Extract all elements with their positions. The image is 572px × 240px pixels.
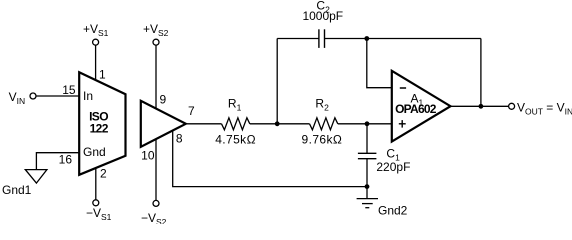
wire pin 10 (-VS2) xyxy=(155,134,157,200)
wire feedback down to output node xyxy=(480,39,482,107)
svg-text:16: 16 xyxy=(59,153,73,167)
svg-text:122: 122 xyxy=(90,121,109,135)
node D3 (top wire/-in junction) xyxy=(364,36,369,41)
svg-text:1: 1 xyxy=(99,68,106,82)
svg-text:1000pF: 1000pF xyxy=(302,9,343,23)
node D2 (R2/C1/+in junction) xyxy=(365,121,370,126)
wire R2 to op-amp + input xyxy=(338,123,393,125)
svg-text:In: In xyxy=(83,89,93,103)
wire C1 to Gnd2 xyxy=(366,159,368,199)
svg-text:OPA602: OPA602 xyxy=(395,102,437,116)
terminal -VS1 xyxy=(93,200,99,206)
svg-text:2: 2 xyxy=(100,167,107,181)
ISO122 U1 body xyxy=(79,72,125,175)
svg-text:4.75kΩ: 4.75kΩ xyxy=(215,133,256,147)
svg-text:Gnd1: Gnd1 xyxy=(2,183,32,197)
terminal +VS2 xyxy=(153,39,159,45)
wire pin 7 output to R1 xyxy=(183,123,222,125)
terminal -VS2 xyxy=(153,200,159,206)
wire node A down to op-amp - input xyxy=(367,39,393,88)
terminal VOUT xyxy=(509,103,515,109)
wire node B down to C1 xyxy=(366,124,368,153)
wire op-amp output to VOUT xyxy=(448,105,509,107)
capacitor C2 xyxy=(319,29,325,48)
svg-text:7: 7 xyxy=(188,104,195,118)
terminal VIN xyxy=(30,93,36,99)
capacitor C1 xyxy=(358,153,377,158)
resistor R1 xyxy=(222,118,250,130)
terminal +VS1 xyxy=(93,39,99,45)
wire pin 16 to Gnd1 xyxy=(36,153,80,170)
wire C2 branch up from R1/R2 node xyxy=(276,39,278,124)
svg-text:9.76kΩ: 9.76kΩ xyxy=(302,133,343,147)
wire top to C2 left plate xyxy=(277,38,319,40)
ground Gnd2 xyxy=(357,199,378,208)
buffer (ISO122 output stage) xyxy=(141,101,186,147)
svg-text:220pF: 220pF xyxy=(376,160,410,174)
wire C2 right plate to feedback corner xyxy=(325,38,481,40)
wire pin 8 down and right to Gnd2 node xyxy=(173,130,367,187)
wire pin 1 (+VS1) xyxy=(95,45,97,81)
wire pin 15 (VIN to ISO122) xyxy=(36,95,80,97)
svg-text:8: 8 xyxy=(176,132,183,146)
svg-text:15: 15 xyxy=(62,83,76,97)
wire R1 to R2 xyxy=(250,123,310,125)
node D4 (pin8/C1/Gnd2 junction) xyxy=(365,184,370,189)
node D1 (R1/R2/C2 junction) xyxy=(275,121,280,126)
wire pin 9 (+VS2) xyxy=(155,45,157,112)
node D5 (output/feedback junction) xyxy=(479,104,484,109)
ground Gnd1 xyxy=(25,170,47,184)
op-amp U2 OPA602 xyxy=(392,71,451,142)
wire pin 2 (-VS1) xyxy=(95,167,97,200)
svg-text:10: 10 xyxy=(141,149,155,163)
svg-text:Gnd: Gnd xyxy=(83,145,106,159)
op-amp minus sign xyxy=(400,87,406,89)
op-amp plus sign xyxy=(399,120,406,128)
svg-text:9: 9 xyxy=(160,93,167,107)
resistor R2 xyxy=(310,118,338,130)
svg-text:Gnd2: Gnd2 xyxy=(378,204,408,218)
